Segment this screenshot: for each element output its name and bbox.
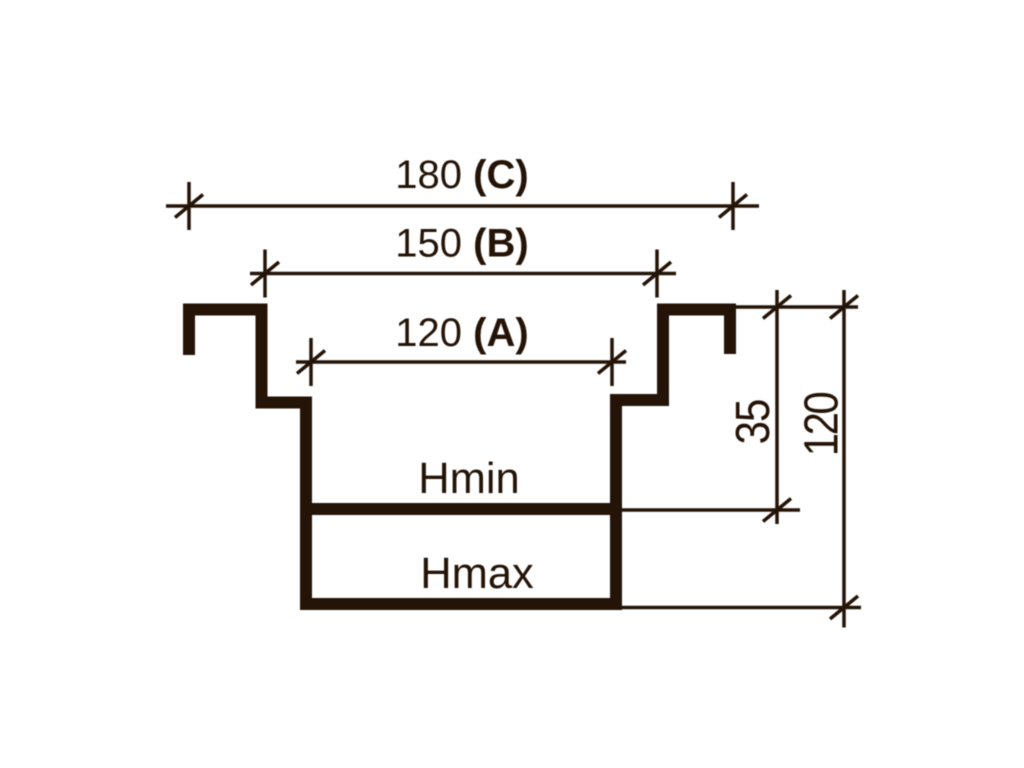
svg-text:180 (C): 180 (C): [395, 153, 528, 197]
svg-text:120 (A): 120 (A): [395, 311, 528, 355]
svg-text:Hmax: Hmax: [420, 550, 534, 598]
svg-text:150 (B): 150 (B): [395, 222, 528, 266]
svg-text:35: 35: [725, 400, 779, 445]
svg-text:120: 120: [794, 392, 848, 456]
svg-text:Hmin: Hmin: [418, 455, 520, 503]
